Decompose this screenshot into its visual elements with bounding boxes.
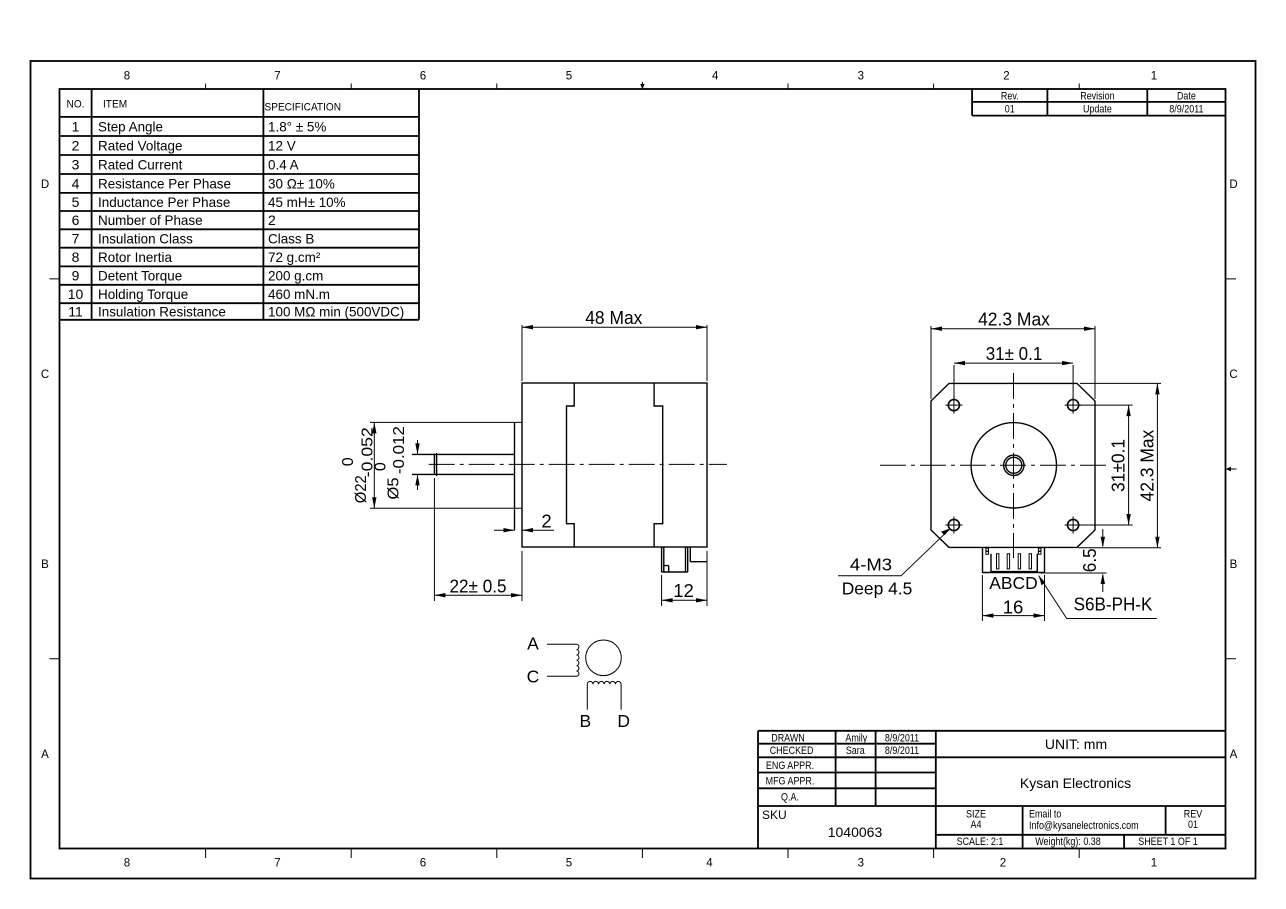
- svg-text:Ø22: Ø22: [353, 475, 370, 503]
- svg-text:0: 0: [373, 462, 390, 471]
- svg-text:Email to: Email to: [1029, 809, 1061, 821]
- svg-text:A: A: [527, 634, 539, 654]
- svg-text:ITEM: ITEM: [103, 99, 127, 111]
- svg-text:1: 1: [72, 118, 80, 134]
- svg-text:ENG APPR.: ENG APPR.: [766, 760, 814, 772]
- svg-text:Rated Voltage: Rated Voltage: [98, 138, 183, 154]
- svg-text:Revision: Revision: [1080, 90, 1114, 102]
- svg-text:1040063: 1040063: [828, 824, 883, 840]
- svg-text:D: D: [617, 711, 630, 731]
- svg-text:D: D: [1229, 179, 1237, 191]
- svg-text:Info@kysanelectronics.com: Info@kysanelectronics.com: [1029, 820, 1139, 832]
- svg-text:8: 8: [124, 858, 130, 870]
- svg-text:Weight(kg): 0.38: Weight(kg): 0.38: [1035, 836, 1101, 848]
- svg-text:01: 01: [1005, 103, 1015, 115]
- svg-text:SPECIFICATION: SPECIFICATION: [265, 102, 342, 114]
- svg-text:0.4 A: 0.4 A: [268, 157, 299, 173]
- svg-text:A: A: [41, 749, 49, 761]
- svg-text:42.3 Max: 42.3 Max: [1136, 429, 1157, 501]
- svg-text:B: B: [1230, 559, 1238, 571]
- svg-text:3: 3: [858, 858, 864, 870]
- svg-text:4-M3: 4-M3: [850, 555, 892, 575]
- svg-text:22± 0.5: 22± 0.5: [450, 575, 507, 596]
- svg-text:4: 4: [72, 175, 80, 191]
- svg-text:31± 0.1: 31± 0.1: [986, 343, 1043, 364]
- svg-text:8/9/2011: 8/9/2011: [885, 745, 919, 757]
- svg-text:8: 8: [72, 249, 80, 265]
- svg-text:SHEET 1 OF 1: SHEET 1 OF 1: [1138, 836, 1198, 848]
- svg-text:Sara: Sara: [846, 745, 866, 757]
- svg-text:12: 12: [673, 580, 694, 601]
- svg-text:1: 1: [1151, 858, 1157, 870]
- svg-text:3: 3: [72, 157, 80, 173]
- svg-text:4: 4: [706, 858, 713, 870]
- svg-text:Q.A.: Q.A.: [781, 791, 799, 803]
- svg-text:1: 1: [1151, 71, 1157, 83]
- svg-text:45 mH± 10%: 45 mH± 10%: [268, 194, 346, 210]
- svg-text:11: 11: [68, 304, 83, 320]
- svg-text:A: A: [1230, 749, 1238, 761]
- svg-text:Date: Date: [1177, 90, 1196, 102]
- svg-text:Detent Torque: Detent Torque: [98, 268, 182, 284]
- svg-text:2: 2: [1000, 858, 1006, 870]
- svg-text:Insulation Resistance: Insulation Resistance: [98, 304, 226, 320]
- svg-text:6: 6: [72, 212, 80, 228]
- svg-text:3: 3: [858, 71, 864, 83]
- svg-text:7: 7: [274, 71, 280, 83]
- svg-text:8: 8: [124, 71, 130, 83]
- svg-text:Deep 4.5: Deep 4.5: [842, 579, 913, 599]
- svg-text:Ø5: Ø5: [386, 477, 403, 499]
- svg-text:MFG APPR.: MFG APPR.: [766, 776, 815, 788]
- svg-text:460 mN.m: 460 mN.m: [268, 286, 330, 302]
- svg-text:Insulation Class: Insulation Class: [98, 231, 193, 247]
- svg-text:6: 6: [420, 858, 426, 870]
- svg-text:100 MΩ min (500VDC): 100 MΩ min (500VDC): [268, 304, 404, 320]
- svg-text:8/9/2011: 8/9/2011: [1169, 103, 1203, 115]
- svg-text:DRAWN: DRAWN: [771, 732, 805, 744]
- svg-text:CHECKED: CHECKED: [770, 745, 814, 757]
- svg-text:72 g.cm²: 72 g.cm²: [268, 249, 321, 265]
- svg-text:2: 2: [268, 212, 276, 228]
- svg-text:2: 2: [541, 511, 551, 532]
- svg-text:UNIT: mm: UNIT: mm: [1045, 736, 1107, 752]
- svg-text:A4: A4: [971, 819, 982, 831]
- svg-text:-0.012: -0.012: [391, 426, 408, 474]
- svg-text:01: 01: [1188, 819, 1198, 831]
- svg-text:C: C: [1229, 369, 1237, 381]
- svg-text:Inductance Per Phase: Inductance Per Phase: [98, 194, 230, 210]
- svg-text:2: 2: [72, 138, 80, 154]
- svg-text:8/9/2011: 8/9/2011: [885, 732, 919, 744]
- svg-text:48 Max: 48 Max: [585, 307, 643, 328]
- svg-text:5: 5: [566, 71, 572, 83]
- svg-text:SKU: SKU: [762, 808, 787, 822]
- svg-text:6: 6: [420, 71, 426, 83]
- svg-text:Step Angle: Step Angle: [98, 118, 163, 134]
- svg-text:4: 4: [712, 71, 719, 83]
- svg-text:31±0.1: 31±0.1: [1107, 439, 1128, 492]
- svg-text:SCALE: 2:1: SCALE: 2:1: [957, 836, 1004, 848]
- svg-text:7: 7: [274, 858, 280, 870]
- svg-text:6.5: 6.5: [1079, 548, 1100, 572]
- svg-text:D: D: [41, 179, 49, 191]
- svg-text:Kysan Electronics: Kysan Electronics: [1020, 775, 1131, 791]
- svg-text:2: 2: [1003, 71, 1009, 83]
- svg-text:7: 7: [72, 231, 80, 247]
- svg-text:42.3 Max: 42.3 Max: [978, 308, 1050, 329]
- svg-text:Update: Update: [1083, 103, 1112, 115]
- svg-text:5: 5: [566, 858, 572, 870]
- svg-text:Number of Phase: Number of Phase: [98, 212, 203, 228]
- svg-text:12 V: 12 V: [268, 138, 296, 154]
- svg-text:Rev.: Rev.: [1001, 90, 1019, 102]
- svg-text:B: B: [579, 711, 591, 731]
- svg-text:16: 16: [1003, 597, 1024, 618]
- svg-text:C: C: [527, 667, 540, 687]
- svg-text:NO.: NO.: [67, 99, 85, 111]
- svg-text:Rated Current: Rated Current: [98, 157, 182, 173]
- svg-text:Amily: Amily: [845, 732, 867, 744]
- svg-text:C: C: [41, 369, 49, 381]
- svg-text:Rotor Inertia: Rotor Inertia: [98, 249, 172, 265]
- svg-text:9: 9: [72, 268, 80, 284]
- svg-text:30 Ω± 10%: 30 Ω± 10%: [268, 175, 335, 191]
- svg-text:1.8° ± 5%: 1.8° ± 5%: [268, 118, 326, 134]
- svg-text:Holding Torque: Holding Torque: [98, 286, 188, 302]
- svg-text:10: 10: [68, 286, 84, 302]
- svg-text:Class B: Class B: [268, 231, 314, 247]
- svg-text:S6B-PH-K: S6B-PH-K: [1074, 594, 1153, 615]
- svg-text:0: 0: [340, 457, 357, 466]
- svg-text:ABCD: ABCD: [989, 573, 1038, 593]
- svg-text:5: 5: [72, 194, 80, 210]
- svg-text:Resistance Per Phase: Resistance Per Phase: [98, 175, 231, 191]
- svg-text:B: B: [41, 559, 49, 571]
- svg-text:200 g.cm: 200 g.cm: [268, 268, 323, 284]
